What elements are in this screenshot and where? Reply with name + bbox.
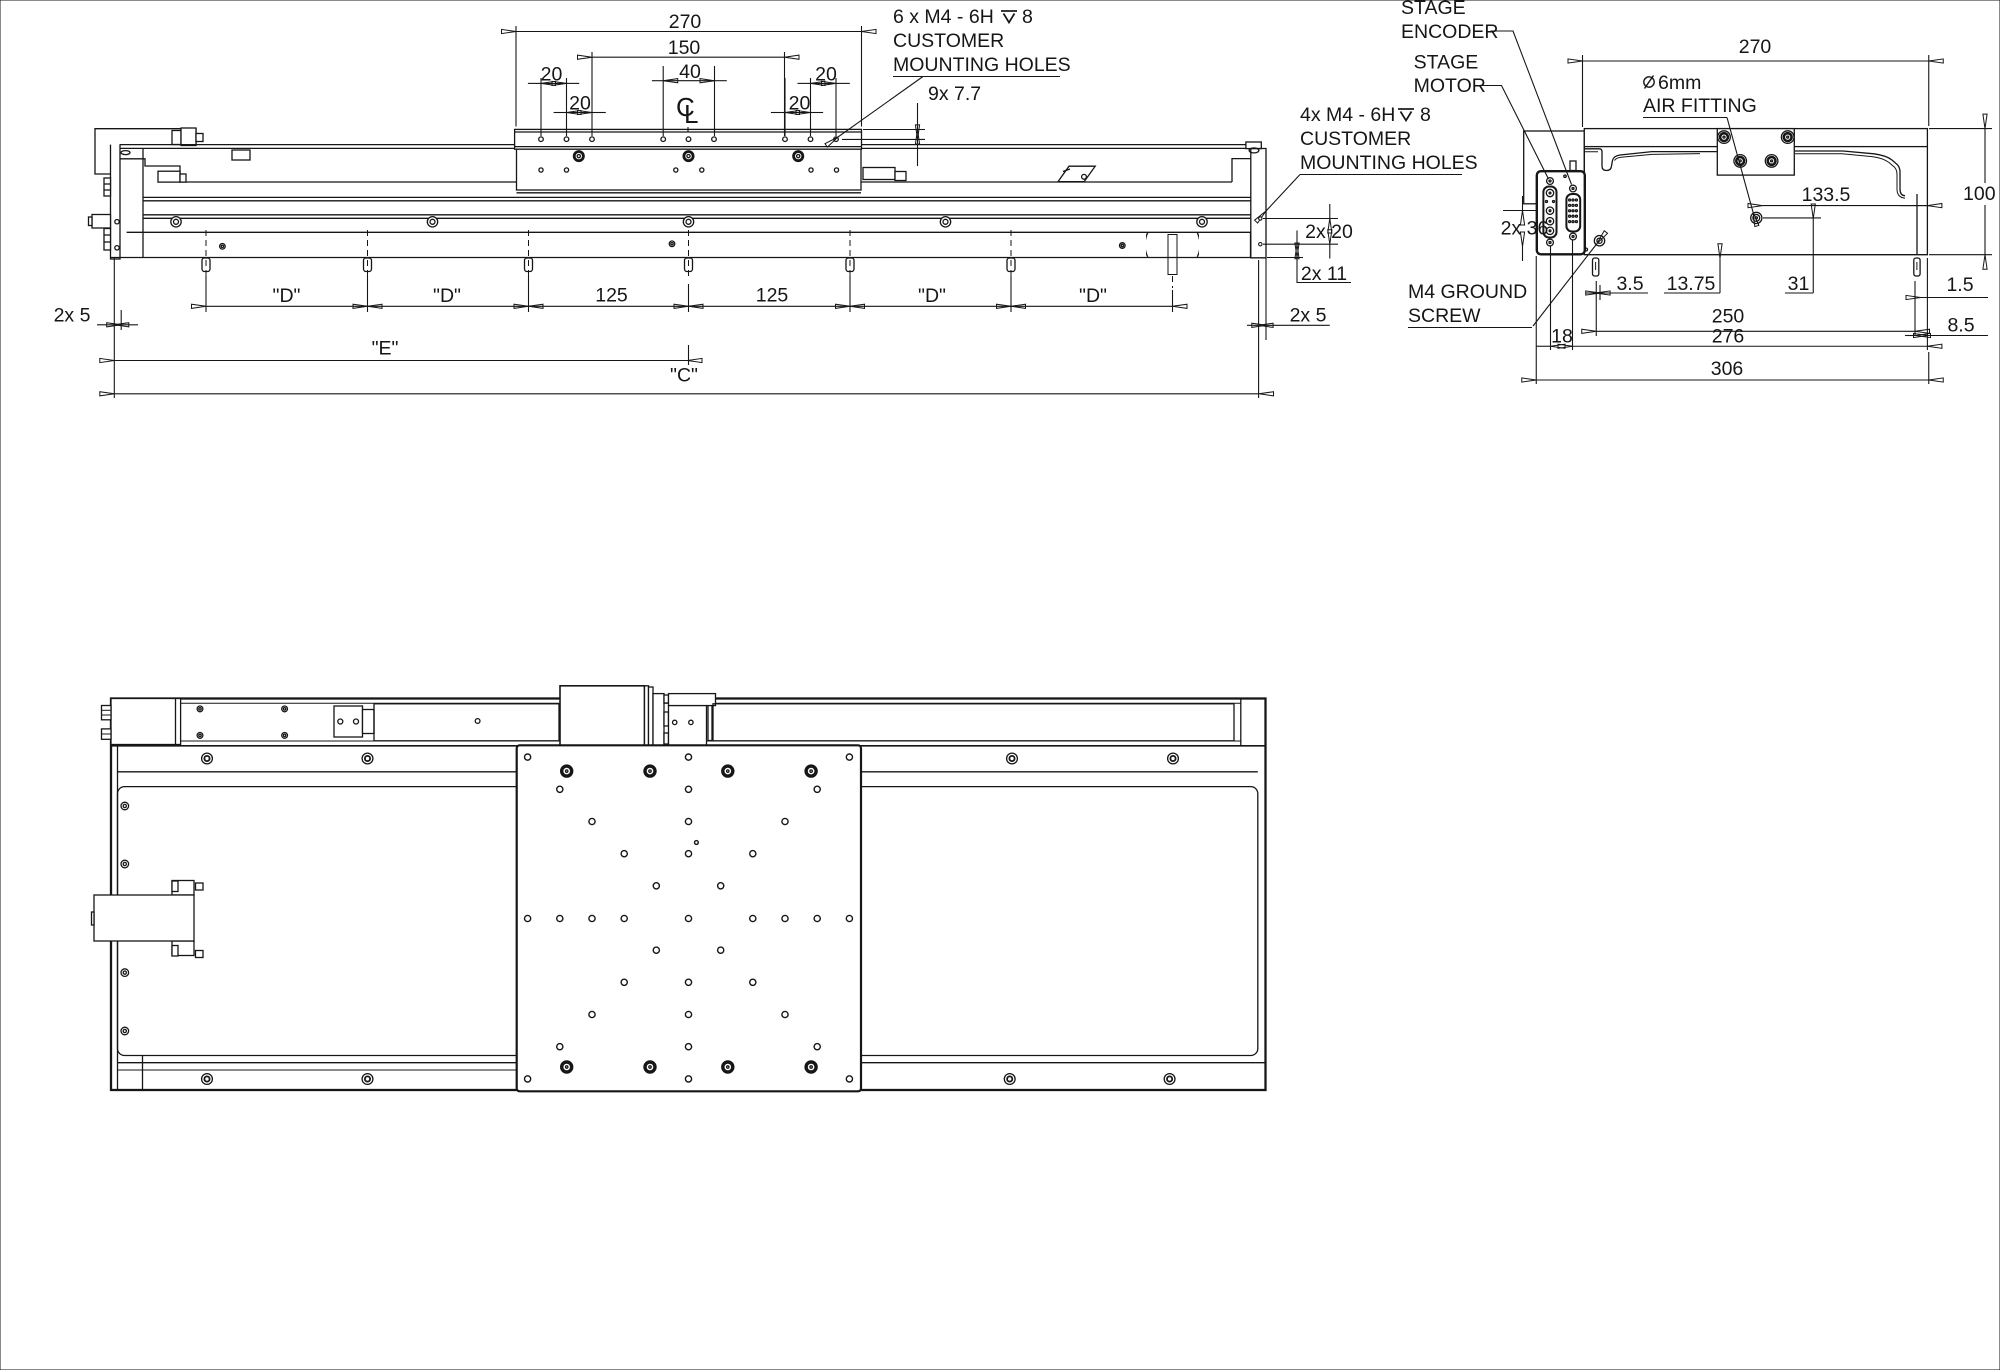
bump screw TL bbox=[1718, 131, 1731, 144]
label air fitting bbox=[1644, 76, 1654, 89]
left inner block edge bbox=[142, 148, 144, 258]
svg-text:150: 150 bbox=[668, 37, 701, 59]
chain band guide bottom bbox=[181, 740, 1241, 742]
bracket tab bbox=[1570, 161, 1576, 171]
clamp block large bbox=[181, 128, 196, 146]
svg-text:8: 8 bbox=[1022, 6, 1033, 28]
svg-text:"E": "E" bbox=[372, 338, 399, 360]
motor block bbox=[111, 699, 181, 745]
right end plate bbox=[1251, 149, 1266, 258]
rail screw 4 bbox=[940, 217, 950, 227]
rail top line 1 bbox=[120, 144, 1251, 146]
rail belt line bbox=[180, 181, 1232, 183]
svg-text:L: L bbox=[684, 99, 698, 129]
svg-text:MOUNTING HOLES: MOUNTING HOLES bbox=[1300, 152, 1478, 174]
svg-text:"D": "D" bbox=[433, 285, 461, 307]
svg-text:STAGE: STAGE bbox=[1401, 0, 1466, 19]
rail mid line 2 bbox=[143, 200, 1251, 202]
carriage plate bbox=[517, 745, 861, 1091]
motor connector 9W4 bbox=[1543, 178, 1556, 246]
bump screw BR bbox=[1765, 155, 1778, 168]
rail right step bbox=[1232, 159, 1251, 182]
svg-text:2x 5: 2x 5 bbox=[54, 305, 91, 327]
carriage small holes bbox=[539, 168, 839, 172]
cable chain left bbox=[374, 704, 559, 741]
svg-text:ENCODER: ENCODER bbox=[1401, 21, 1499, 43]
switch side strip bbox=[708, 706, 712, 741]
svg-text:8: 8 bbox=[1420, 104, 1431, 126]
bump screw TR bbox=[1781, 131, 1794, 144]
carriage top plate bbox=[515, 129, 862, 149]
carriage plate holes bbox=[539, 137, 839, 142]
svg-text:250: 250 bbox=[1712, 306, 1745, 328]
svg-text:31: 31 bbox=[1788, 273, 1810, 295]
cable chain right bbox=[713, 704, 1234, 741]
dim 3.5 bbox=[1599, 285, 1601, 300]
belt clamp right B bbox=[895, 172, 906, 181]
end plate hole top bbox=[1259, 217, 1262, 220]
hatched section disc bbox=[1145, 217, 1200, 272]
svg-text:SCREW: SCREW bbox=[1408, 305, 1481, 327]
rail mid line 1 bbox=[143, 196, 1251, 198]
left teeth lower bbox=[104, 229, 111, 251]
dim C bbox=[114, 393, 1259, 395]
svg-text:20: 20 bbox=[541, 64, 563, 86]
motor bump bbox=[1717, 129, 1794, 176]
svg-text:2x 5: 2x 5 bbox=[1290, 305, 1327, 327]
chain pin hole bbox=[475, 719, 480, 724]
idler small rect bbox=[232, 150, 250, 160]
dim E bbox=[113, 258, 115, 398]
inner left wall bbox=[117, 746, 119, 1089]
belt tensioner diagonal bbox=[1058, 166, 1095, 181]
dim 133.5 bbox=[1763, 217, 1821, 219]
svg-text:20: 20 bbox=[815, 64, 837, 86]
dim 20 right outer bbox=[798, 82, 811, 84]
svg-text:270: 270 bbox=[1739, 36, 1772, 58]
body profile bbox=[1584, 149, 1717, 171]
dim 250 bbox=[1595, 281, 1597, 336]
tiny dot top bbox=[1564, 175, 1566, 177]
svg-text:"C": "C" bbox=[670, 365, 698, 387]
clamp block small bbox=[172, 131, 181, 145]
motor block tabs bbox=[102, 706, 112, 720]
base screw 3 bbox=[1120, 243, 1126, 249]
svg-text:2x 11: 2x 11 bbox=[1301, 263, 1347, 285]
D/125 row ticks bbox=[205, 276, 207, 312]
svg-text:4x M4 - 6H: 4x M4 - 6H bbox=[1300, 104, 1395, 126]
left bracket bbox=[95, 129, 196, 174]
svg-text:M4 GROUND: M4 GROUND bbox=[1408, 281, 1527, 303]
dim 20 left inner bbox=[554, 112, 567, 114]
svg-text:13.75: 13.75 bbox=[1667, 273, 1716, 295]
rail screw 3 bbox=[683, 217, 693, 227]
svg-text:3.5: 3.5 bbox=[1616, 273, 1643, 295]
svg-text:133.5: 133.5 bbox=[1802, 184, 1851, 206]
tiny hole bbox=[1585, 248, 1588, 251]
body inner right wall bbox=[1916, 194, 1918, 255]
switch top bar bbox=[669, 694, 716, 706]
svg-text:125: 125 bbox=[595, 285, 628, 307]
left end plate bbox=[111, 145, 121, 259]
ext lines top dims bbox=[515, 26, 517, 127]
pins bbox=[1593, 258, 1599, 276]
top plate band bbox=[1584, 129, 1927, 147]
dim 31 bbox=[1812, 219, 1814, 294]
dim 2x20 bbox=[1263, 218, 1338, 220]
left teeth upper bbox=[104, 178, 111, 196]
switch body bbox=[669, 706, 707, 747]
pocket wall screws bbox=[121, 802, 129, 1035]
base flange right edge bbox=[1250, 232, 1252, 257]
rail top line 2 bbox=[120, 147, 1251, 149]
end plate hole lower bbox=[115, 246, 119, 250]
rail lower line 1 bbox=[143, 214, 1251, 216]
flag strip 1 bbox=[645, 686, 649, 748]
chain band bottom edge bbox=[111, 745, 1266, 747]
dim 2x11 bbox=[1296, 231, 1298, 245]
svg-text:306: 306 bbox=[1711, 358, 1744, 380]
svg-text:20: 20 bbox=[569, 93, 591, 115]
svg-text:AIR FITTING: AIR FITTING bbox=[1643, 95, 1757, 117]
belt clamp right A bbox=[863, 168, 895, 180]
svg-text:"D": "D" bbox=[273, 285, 301, 307]
ground screw bbox=[1594, 236, 1604, 246]
motor rod assembly bbox=[92, 881, 204, 958]
svg-text:1.5: 1.5 bbox=[1946, 274, 1973, 296]
svg-text:2x 36: 2x 36 bbox=[1501, 218, 1549, 240]
body outline bbox=[1584, 147, 1927, 255]
rail screw 2 bbox=[427, 217, 437, 227]
svg-text:276: 276 bbox=[1712, 326, 1745, 348]
svg-text:"D": "D" bbox=[918, 285, 946, 307]
base screw 2 bbox=[669, 241, 675, 247]
left tab bbox=[92, 215, 111, 229]
end plate hole bottom bbox=[1259, 243, 1262, 246]
pocket rounded rect bbox=[118, 787, 1258, 1056]
right end cap bbox=[1240, 699, 1242, 746]
base flange top bbox=[127, 231, 1251, 233]
base outline bbox=[111, 699, 1266, 1091]
dim 270 end view bbox=[1582, 55, 1584, 127]
svg-text:270: 270 bbox=[669, 11, 702, 33]
svg-text:100: 100 bbox=[1963, 183, 1996, 205]
dowel hole bbox=[695, 841, 699, 845]
right end lip bbox=[1246, 142, 1261, 149]
svg-text:"D": "D" bbox=[1079, 285, 1107, 307]
svg-text:MOTOR: MOTOR bbox=[1414, 75, 1486, 97]
svg-text:9x 7.7: 9x 7.7 bbox=[928, 83, 981, 105]
leader 6xM4 bbox=[838, 77, 923, 138]
right end slot oval bbox=[1249, 148, 1259, 153]
dim 276 bbox=[1573, 345, 1928, 347]
air fitting bbox=[1751, 212, 1762, 223]
left bracket bbox=[1524, 131, 1585, 204]
rail left step bbox=[120, 159, 180, 182]
flag strip 2 bbox=[649, 687, 654, 747]
connector panel bbox=[1537, 171, 1585, 254]
svg-text:CUSTOMER: CUSTOMER bbox=[1300, 128, 1411, 150]
tensioner slot bbox=[1063, 169, 1070, 172]
chain anchor block bbox=[334, 706, 363, 737]
rail screw 5 bbox=[1197, 217, 1207, 227]
rail lower line 2 bbox=[143, 217, 1251, 219]
top band screws bbox=[202, 753, 1179, 764]
base flange bottom bbox=[111, 257, 1251, 259]
mount pins row bbox=[202, 258, 1015, 272]
band holes bbox=[197, 706, 287, 738]
bottom corner piece bbox=[142, 1056, 144, 1090]
dim 40 bbox=[652, 80, 663, 82]
bottom band screws bbox=[202, 1074, 1175, 1085]
svg-text:6mm: 6mm bbox=[1658, 72, 1701, 94]
bottom band line 1 bbox=[118, 1062, 1266, 1064]
dim 100 bbox=[1929, 128, 1992, 130]
end plate hole upper bbox=[115, 220, 119, 224]
plate fixing screws bbox=[562, 766, 816, 1072]
leader 4xM4 bbox=[1266, 175, 1300, 212]
chain band guide top bbox=[181, 702, 1241, 704]
svg-text:6 x M4 - 6H: 6 x M4 - 6H bbox=[893, 6, 994, 28]
svg-text:18: 18 bbox=[1551, 326, 1573, 348]
pin centerlines bbox=[206, 230, 1173, 288]
dim 1.5 right bbox=[1921, 297, 1989, 299]
base screw 1 bbox=[220, 244, 226, 250]
dim 270 bbox=[516, 31, 862, 33]
svg-text:2x 20: 2x 20 bbox=[1305, 221, 1353, 243]
svg-text:40: 40 bbox=[679, 61, 701, 83]
svg-text:20: 20 bbox=[789, 93, 811, 115]
dim 150 bbox=[592, 56, 785, 58]
top screw band line bbox=[118, 771, 1258, 773]
dim 13.75 bbox=[1719, 258, 1721, 293]
belt clamp left B bbox=[180, 174, 186, 182]
encoder connector HD15 bbox=[1566, 185, 1580, 240]
dim 18 bbox=[1550, 246, 1552, 350]
flag block bbox=[560, 686, 645, 748]
dim 8.5 bbox=[1928, 335, 1988, 337]
tensioner hole bbox=[1082, 174, 1087, 179]
rail screw 1 bbox=[171, 217, 181, 227]
CL symbol side view bbox=[676, 92, 698, 129]
M6 hole grid bbox=[525, 754, 853, 1082]
hatched pin bbox=[1168, 235, 1177, 275]
dim 20 left outer bbox=[528, 82, 541, 84]
D/125 chained dim bbox=[206, 305, 368, 307]
block slot oval bbox=[121, 151, 130, 155]
svg-text:MOUNTING HOLES: MOUNTING HOLES bbox=[893, 54, 1071, 76]
dim 306 bbox=[1535, 256, 1537, 384]
bump screw BL bbox=[1734, 155, 1747, 168]
svg-text:CUSTOMER: CUSTOMER bbox=[893, 30, 1004, 52]
dim 20 right inner bbox=[771, 112, 785, 114]
belt clamp left A bbox=[158, 171, 180, 182]
carriage screws bbox=[574, 152, 803, 161]
carriage body bbox=[517, 149, 862, 190]
dim 2x36 bbox=[1503, 210, 1537, 212]
svg-text:125: 125 bbox=[756, 285, 789, 307]
dim 2x5 right bbox=[1258, 260, 1260, 398]
svg-text:8.5: 8.5 bbox=[1947, 315, 1974, 337]
clamp nub bbox=[196, 134, 203, 142]
switch toothed bracket bbox=[653, 694, 664, 746]
svg-text:STAGE: STAGE bbox=[1414, 52, 1479, 74]
bottom band line 2 bbox=[118, 1069, 517, 1071]
